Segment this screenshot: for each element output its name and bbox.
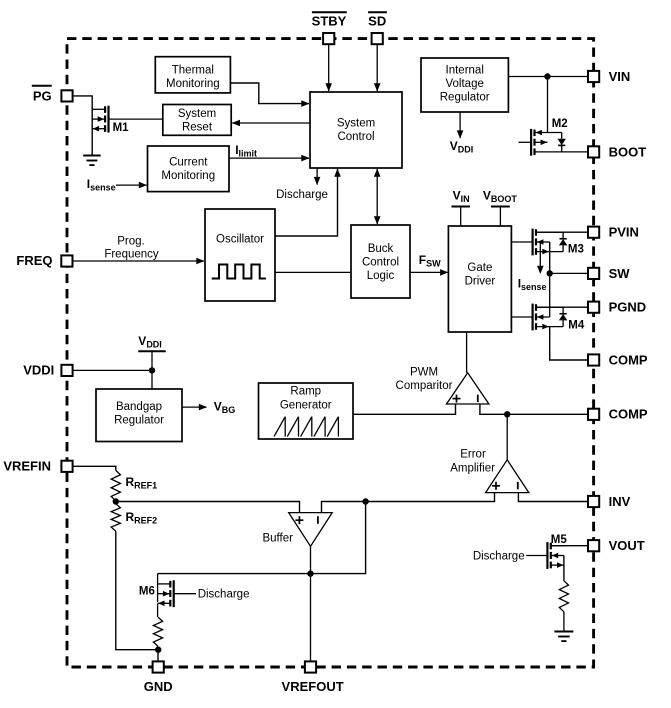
svg-text:Bandgap: Bandgap [116,401,162,413]
wire Thermal Monitoring to System Control [230,83,309,104]
transistor M1 [104,106,106,113]
svg-text:Prog.: Prog. [117,236,145,248]
wire Gate Driver to M3 gate [511,241,532,243]
sawtooth symbol in Ramp Generator [274,417,285,437]
wire System Control to System Reset [232,122,310,124]
node buffer output junction [307,570,313,576]
pin VREFOUT [305,661,316,672]
pin COMP1 [588,354,599,365]
body diode of M2 [561,133,563,139]
wire Error Amplifier output to COMP node [506,414,508,460]
op-amp PWM Comparitor [447,373,489,404]
svg-text:Error: Error [460,449,486,461]
svg-text:Control: Control [362,257,399,269]
node COMP junction [504,411,510,417]
svg-text:Ramp: Ramp [290,386,321,398]
wire Ilimit Current Monitoring to System Control [229,157,309,159]
op-amp Error Amplifier [486,460,529,493]
resistor RREF1 [111,470,120,500]
svg-text:System: System [178,108,216,120]
pin COMP2 [588,409,599,420]
svg-text:Discharge: Discharge [473,551,525,563]
wire M5 drain to VOUT [551,545,588,547]
wire SW node to M4 [549,273,551,317]
op-amp Buffer [289,513,333,547]
svg-text:Logic: Logic [367,270,395,282]
svg-text:FREQ: FREQ [16,253,52,268]
pin PG [61,90,72,101]
ground below M1 [83,155,101,157]
svg-text:COMP: COMP [609,352,648,367]
power rail VDDI above Bandgap Regulator [151,351,153,389]
block Current Monitoring [148,146,230,192]
svg-text:Gate: Gate [467,262,492,274]
wire Isense arrow at M3 [539,242,541,269]
wire M2 source to BOOT [535,151,589,153]
svg-text:Frequency: Frequency [104,249,159,261]
wire VIN to M2 [547,77,549,133]
wire RREF2 to GND node [116,531,159,650]
svg-text:Buck: Buck [368,243,394,255]
node reference junction [113,498,119,504]
wire SD to System Control [376,44,378,91]
node buffer feedback junction [362,498,368,504]
wire M6 source to resistor [157,603,159,617]
block Oscillator [205,209,275,301]
wire M3 to SW node [549,242,551,273]
wire FREQ Prog. Frequency to Oscillator [72,260,204,262]
wire RREF divider to Buffer non-inverting input [116,502,300,513]
ground below M5 [554,631,573,633]
svg-text:System: System [337,118,375,130]
power rail VIN of Gate Driver [460,207,462,227]
block Buck Control Logic [351,225,410,298]
resistor RREF2 [111,504,120,532]
transistor M3 [535,229,537,236]
pin VIN [588,71,599,82]
svg-text:Voltage: Voltage [446,78,484,90]
wire Gate Driver to PWM Comparitor [466,332,468,373]
transistor M5 [550,543,552,550]
pin STBY [323,33,334,44]
svg-text:Discharge: Discharge [198,589,250,601]
wire Error Amplifier inverting input to INV [518,493,588,502]
square wave symbol in Oscillator [212,265,266,279]
wire Discharge arrow from System Control [316,168,318,185]
svg-text:PVIN: PVIN [609,225,639,240]
pin INV [588,496,599,507]
block System Reset [163,105,231,136]
pin PVIN [588,227,599,238]
pin SW [588,268,599,279]
block Bandgap Regulator [96,389,182,442]
wire M4 source to COMP [550,327,588,360]
transistor M6 [169,581,171,588]
node VDDI junction [149,367,155,373]
svg-text:Reset: Reset [182,122,213,134]
block Thermal Monitoring [155,57,230,93]
wire Oscillator to Buck Control Logic [275,271,351,273]
pin SD [372,33,383,44]
wire Discharge to M5 gate [526,555,547,557]
node GND junction [157,646,159,661]
wire PWM Comparitor to COMP pin [480,404,588,414]
wire System Control to Buck Control Logic (bidirectional) [376,169,378,224]
wire VREFIN to RREF1 [72,466,115,470]
svg-text:Internal: Internal [446,64,484,76]
svg-text:COMP: COMP [609,407,648,422]
svg-text:Oscillator: Oscillator [216,233,264,245]
wire reference line to Error Amplifier non-inverting input [322,493,495,513]
svg-text:M6: M6 [139,586,155,598]
pin GND [153,661,164,672]
pin PGND [588,302,599,313]
wire Internal Voltage Regulator to VIN [508,76,588,78]
svg-text:Control: Control [337,131,374,143]
svg-text:Driver: Driver [465,276,496,288]
body diode of M3 [562,232,564,239]
node SW junction [547,270,553,276]
resistor below M5 [559,581,568,612]
pin VREFIN [61,461,72,472]
svg-text:STBY: STBY [312,13,347,28]
wire resistor to ground [563,612,565,632]
pin BOOT [588,146,599,157]
svg-text:M3: M3 [568,244,584,256]
wire buffer output to VREFOUT [310,574,312,662]
svg-text:PWM: PWM [410,367,438,379]
transistor M2 [533,130,535,137]
IC boundary (dashed border) [67,39,594,667]
block Internal Voltage Regulator [421,58,508,112]
svg-text:Amplifier: Amplifier [450,463,495,475]
power rail VBOOT of Gate Driver [499,207,501,227]
svg-text:M2: M2 [552,118,568,130]
svg-text:Monitoring: Monitoring [161,170,215,182]
svg-text:Generator: Generator [280,399,332,411]
svg-text:VREFIN: VREFIN [3,458,51,473]
wire FSW Buck Control Logic to Gate Driver [410,271,448,273]
wire PG to M1 drain [72,96,92,155]
svg-text:M4: M4 [568,320,585,332]
svg-text:VOUT: VOUT [609,538,645,553]
svg-text:PGND: PGND [609,300,647,315]
svg-text:VIN: VIN [609,69,631,84]
block Ramp Generator [259,383,354,439]
wire Isense input to Current Monitoring [116,184,147,186]
svg-text:SW: SW [609,266,631,281]
wire Bandgap Regulator VBG output [182,406,207,408]
svg-text:Monitoring: Monitoring [166,78,220,90]
body diode of M4 [562,307,564,314]
svg-text:Regulator: Regulator [114,415,164,427]
svg-text:M5: M5 [551,534,568,546]
wire M4 drain to PGND [536,306,588,308]
svg-text:M1: M1 [113,122,130,134]
block Gate Driver [448,226,511,332]
wire Buffer output [310,546,312,573]
svg-text:VREFOUT: VREFOUT [282,679,344,694]
wire VDDI pin to rail [72,369,152,371]
svg-text:GND: GND [144,679,173,694]
svg-text:PG: PG [33,88,52,103]
svg-text:Regulator: Regulator [440,92,490,104]
svg-text:Discharge: Discharge [276,189,328,201]
wire M3 drain to PVIN [536,231,588,233]
block System Control [310,92,402,168]
pin VDDI [61,365,72,376]
wire feedback from buffer output to inverting input [158,502,366,574]
wire Gate Driver to M4 gate [511,316,532,318]
pin VOUT [588,540,599,551]
node VIN junction [544,73,550,79]
svg-text:VDDI: VDDI [23,363,54,378]
svg-text:Current: Current [169,157,208,169]
wire STBY to System Control [328,44,330,91]
transistor M4 [535,304,537,311]
svg-text:Buffer: Buffer [262,533,293,545]
wire SW node to SW pin [550,272,588,274]
svg-text:Thermal: Thermal [172,64,214,76]
wire M6 drain connection [157,574,159,602]
pin FREQ [61,255,72,266]
wire Oscillator to System Control [275,169,338,236]
wire M1 gate to System Reset [109,118,163,120]
wire Ramp Generator to PWM Comparitor [353,404,456,414]
svg-text:SD: SD [368,13,386,28]
svg-text:INV: INV [609,494,631,509]
resistor below M6 [153,617,162,646]
svg-text:Comparitor: Comparitor [396,380,453,392]
wire M5 source [563,556,565,581]
wire VDDI output of Internal Voltage Regulator [459,112,461,138]
svg-text:BOOT: BOOT [609,144,647,159]
